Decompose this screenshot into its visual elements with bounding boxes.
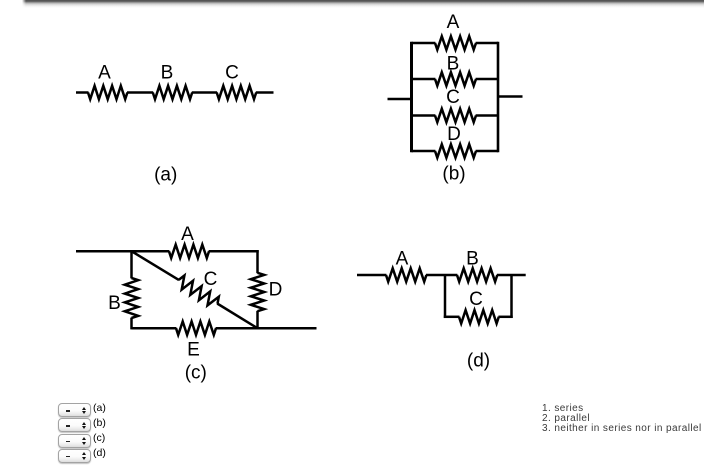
wire: right external lead (b)	[498, 95, 523, 98]
wire: bottom branch right segment (d)	[498, 316, 512, 319]
wire: right lead of (a)	[256, 91, 274, 94]
resistor D (circuit b)	[435, 144, 476, 157]
svg-text:E: E	[187, 340, 200, 361]
svg-text:B: B	[447, 53, 460, 74]
dropdown select for answer (d)	[58, 449, 91, 463]
resistor C (circuit d)	[459, 310, 499, 323]
svg-text:(a): (a)	[154, 165, 177, 186]
wire: bottom rail left of E (c)	[132, 327, 177, 330]
resistor B (circuit a)	[153, 86, 192, 99]
wire: bottom branch left segment (d)	[444, 316, 460, 319]
svg-text:B: B	[108, 293, 121, 314]
svg-text:A: A	[98, 63, 111, 84]
wire: right of B to right lead end (d)	[497, 274, 526, 277]
wire: between A and B (d)	[426, 274, 457, 277]
dropdown label (d)	[93, 447, 106, 459]
wire: left lead of (a)	[76, 91, 89, 94]
svg-text:C: C	[446, 87, 460, 108]
wire: branch B left segment (b)	[412, 78, 436, 81]
svg-text:(d): (d)	[467, 351, 490, 372]
resistor A (circuit d)	[386, 268, 426, 281]
resistor E (circuit c)	[176, 322, 216, 335]
resistor D (circuit c)	[251, 273, 264, 311]
wire: left lead of (d)	[357, 274, 386, 277]
svg-text:B: B	[466, 249, 479, 270]
svg-text:(b): (b)	[442, 164, 465, 185]
resistor B (circuit c)	[125, 278, 138, 318]
wire: branch B right segment (b)	[476, 78, 498, 81]
svg-text:A: A	[447, 12, 460, 33]
wire: diagonal lower segment (c)	[217, 304, 257, 329]
wire: left vertical upper segment (c)	[130, 250, 133, 278]
svg-text:D: D	[269, 280, 283, 301]
wire: left external lead (b)	[388, 98, 412, 101]
dropdown label (c)	[93, 432, 105, 444]
dropdown select for answer (b)	[58, 418, 91, 432]
wire: right vertical upper segment (c)	[256, 250, 259, 273]
answer key list	[542, 404, 702, 433]
resistor C (circuit a)	[217, 86, 257, 99]
svg-text:C: C	[225, 63, 239, 84]
wire: top rail left of A (c)	[132, 250, 170, 253]
toolbar shadow bar	[22, 0, 704, 8]
wire: left vertical of parallel section (d)	[444, 275, 447, 318]
wire: right vertical of parallel section (d)	[510, 275, 513, 318]
wire: branch A left segment (b)	[412, 42, 436, 45]
wire: diagonal upper segment (c)	[132, 252, 179, 281]
wire: branch D left segment (b)	[412, 150, 436, 153]
wire: branch A right segment (b)	[476, 42, 498, 45]
wire: right bus (b)	[497, 42, 500, 152]
resistor A (circuit b)	[435, 36, 476, 49]
resistor A (circuit a)	[88, 86, 127, 99]
resistor B (circuit b)	[435, 72, 476, 85]
svg-text:A: A	[181, 224, 194, 245]
wire: branch D right segment (b)	[476, 150, 498, 153]
svg-text:(c): (c)	[185, 363, 207, 384]
dropdown select for answer (a)	[58, 403, 91, 417]
svg-text:B: B	[161, 63, 174, 84]
wire: top rail right of A (c)	[209, 250, 259, 253]
resistor C (circuit c, diagonal)	[179, 276, 219, 306]
wire: branch C right segment (b)	[476, 114, 498, 117]
dropdown label (b)	[93, 417, 106, 429]
resistor B (circuit d)	[457, 268, 497, 281]
dropdown select for answer (c)	[58, 434, 91, 448]
svg-text:A: A	[396, 249, 409, 270]
wire: right vertical lower segment (c)	[256, 311, 259, 330]
wire: branch C left segment (b)	[412, 114, 436, 117]
wire: top-left lead (c)	[76, 250, 133, 253]
wire: bottom rail right of E (c)	[216, 327, 317, 330]
wire: between B and C (a)	[192, 91, 217, 94]
wire: left bus (b)	[410, 42, 413, 152]
dropdown label (a)	[93, 402, 106, 414]
svg-text:C: C	[204, 269, 218, 290]
resistor C (circuit b)	[435, 109, 476, 122]
resistor A (circuit c)	[169, 245, 209, 258]
svg-text:D: D	[447, 124, 461, 145]
svg-text:C: C	[469, 289, 483, 310]
wire: between A and B (a)	[127, 91, 153, 94]
wire: left vertical lower segment (c)	[130, 318, 133, 330]
